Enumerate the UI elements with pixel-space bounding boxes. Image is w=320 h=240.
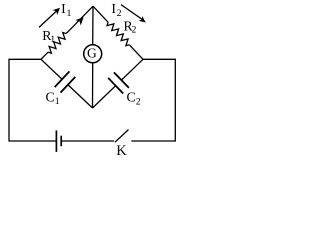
svg-text:R1: R1 [42, 28, 55, 45]
svg-text:I1: I1 [61, 1, 71, 19]
svg-text:C1: C1 [46, 89, 60, 107]
svg-text:I2: I2 [111, 1, 121, 19]
svg-text:K: K [116, 143, 127, 159]
svg-text:R2: R2 [124, 18, 137, 35]
svg-text:G: G [87, 46, 97, 61]
svg-text:C2: C2 [127, 90, 141, 108]
